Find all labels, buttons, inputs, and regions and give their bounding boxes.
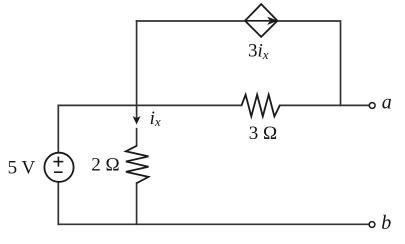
dependent source internal arrow (points right) (246, 20, 270, 22)
svg-text:a: a (382, 92, 392, 114)
wire center branch between ix arrow and 2ohm resistor (136, 129, 138, 146)
wire top from diamond to right corner and down to node (277, 21, 340, 105)
terminal b (open circle) (369, 222, 375, 228)
dependent current source U1 (diamond) (245, 4, 277, 37)
svg-text:ix: ix (150, 108, 161, 129)
current arrow ix (arrowhead, points down) (134, 117, 140, 124)
resistor R2 3 ohm (horizontal zigzag) (242, 95, 280, 117)
resistor R1 2 ohm (vertical zigzag) (126, 146, 149, 183)
wire center branch from 2ohm resistor to bottom wire (136, 183, 138, 224)
svg-text:3 Ω: 3 Ω (249, 123, 277, 144)
terminal a (open circle) (369, 103, 375, 109)
svg-text:5 V: 5 V (8, 158, 36, 179)
svg-text:3ix: 3ix (248, 41, 269, 62)
voltage source plus sign (53, 157, 63, 167)
wire bottom from left corner to terminal b (58, 223, 369, 225)
wire middle horizontal left section (58, 104, 241, 106)
wire middle horizontal right section to terminal a (280, 104, 370, 106)
wire top from node at x=136.6 to diamond (137, 20, 245, 22)
svg-text:b: b (381, 212, 391, 234)
wire center branch ix arrow shaft below middle wire (136, 105, 138, 118)
voltage source minus sign (54, 171, 63, 173)
svg-text:2 Ω: 2 Ω (91, 155, 119, 176)
wire left branch upper (middle wire down to 5V source) (57, 105, 59, 152)
wire left branch lower (5V source to bottom wire) (57, 182, 59, 224)
voltage source V1 5V (circle) (44, 153, 73, 182)
wire center branch from top wire down to middle wire (136, 21, 138, 105)
